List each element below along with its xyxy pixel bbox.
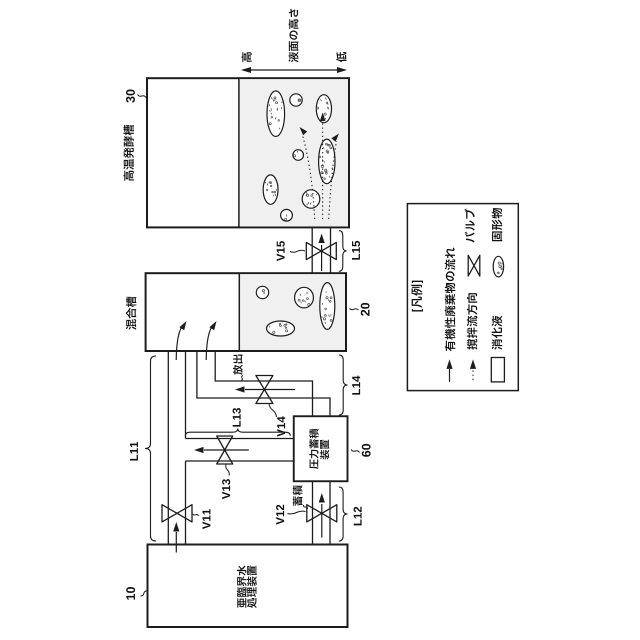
label 20 with connector	[350, 303, 370, 316]
label V12 with connector	[276, 505, 305, 525]
tank 20 name 混合槽	[126, 297, 136, 330]
flow arrow in L14 through V14 (upward release)	[235, 386, 295, 392]
brace and label L15	[339, 231, 360, 272]
tank 30 name 高温発酵槽	[123, 125, 134, 181]
solids in tank 30 (speckled ovals)	[263, 91, 335, 221]
box 10 亜臨界水処理装置 (subcritical water treatment unit)	[148, 545, 348, 628]
brace and label L14	[339, 355, 360, 415]
tank 30 高温発酵槽 (thermophilic fermenter) with liquid	[147, 78, 349, 227]
pipe L12 from box 10 to box 60 (accumulation line)	[313, 481, 331, 544]
flow arrow in L11 through V11	[173, 522, 179, 553]
valve V14	[256, 376, 273, 404]
legend: valve symbol バルブ	[464, 208, 479, 276]
label 放出 (release) with connector	[233, 355, 243, 381]
pipe L15 from tank 20 to tank 30	[312, 227, 330, 273]
flow arrow in L13 through V13 (upward)	[194, 447, 249, 453]
liquid surface height double arrow with 高/低 labels	[241, 9, 347, 73]
valve V13	[217, 436, 233, 464]
label V13 with connector	[222, 465, 230, 500]
label 60 with connector	[351, 444, 371, 457]
tank 20 混合槽 (mixing tank) with liquid	[146, 273, 346, 351]
pipe L11 from box 10 to tank 20 (bottom wall open at L13 tee)	[168, 351, 185, 545]
label 10 with connector	[126, 587, 147, 600]
stirring flow dotted arrow (middle) in tank 30	[320, 113, 326, 220]
legend: solid arrow 有機性廃棄物の流れ (organic waste flow)	[445, 248, 456, 382]
solids in tank 20 (ovals)	[256, 283, 335, 336]
legend: dotted arrow 撹拌流方向 (stirring direction)	[467, 293, 478, 380]
legend: solid oval 固形物 (solids)	[492, 208, 504, 277]
whole diagram group rotated -90deg (patent figure in landscape)	[123, 9, 518, 627]
brace and label L12	[339, 487, 362, 541]
stirring flow dotted arrow (lower) in tank 30	[329, 134, 339, 220]
label V11 with connector	[193, 509, 211, 529]
brace and label L11	[130, 356, 156, 541]
legend: rectangle 消化液 (digested liquid)	[491, 316, 504, 382]
stirring flow dotted arrow (upper) in tank 30	[300, 127, 315, 219]
valve V15	[306, 242, 336, 259]
label V15 with connector	[277, 241, 305, 261]
label V14 with connector	[269, 404, 285, 437]
box 60 圧力蓄積装置 (pressure accumulator)	[294, 416, 348, 481]
flow arrow in L15 through V15	[319, 234, 325, 272]
valve V12	[307, 505, 337, 522]
inflow curved arrow (upper) into tank 20	[176, 321, 186, 360]
brace and label L13	[185, 408, 290, 436]
label 30 with connector	[126, 90, 146, 103]
flow arrow in L12 through V12 (toward box 60)	[319, 493, 325, 538]
label 蓄積 (accumulate) with connector	[293, 485, 308, 509]
inflow curved arrow (lower) into tank 20	[206, 321, 216, 360]
legend box 凡例	[407, 204, 518, 391]
pipe L14 from tank 20 left wall down to box 60 (release line)	[197, 351, 330, 416]
junction pipe L13 from pipe L11 down to box 60	[186, 439, 294, 462]
valve V11	[162, 505, 192, 522]
